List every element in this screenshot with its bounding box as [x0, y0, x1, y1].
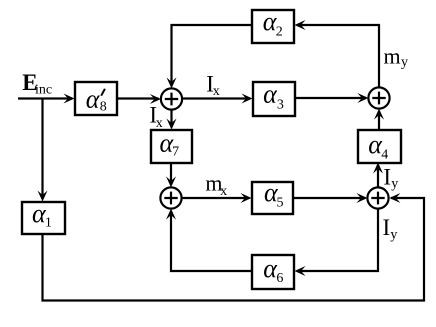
wire S1 to alpha7 (Ix)	[170, 110, 172, 127]
box alpha6	[252, 255, 294, 289]
svg-text:α: α	[263, 80, 278, 109]
svg-text:1: 1	[45, 216, 52, 231]
svg-text:7: 7	[172, 145, 179, 160]
summing junction S1	[161, 88, 182, 109]
svg-text:y: y	[401, 55, 408, 70]
summing junction S2	[368, 87, 389, 108]
wire S3 to alpha5 (mx)	[182, 197, 249, 199]
svg-text:5: 5	[277, 196, 284, 211]
arrowhead into S3 bottom	[166, 209, 176, 220]
box alpha7	[151, 130, 192, 163]
svg-text:m: m	[384, 44, 401, 69]
wire alpha5 to S4	[293, 197, 365, 199]
wire alpha2 to S1 top	[172, 25, 253, 86]
arrowhead into alpha1 top	[38, 191, 48, 202]
arrowhead into alpha5	[241, 193, 252, 203]
svg-text:x: x	[220, 184, 227, 199]
wire branch down to alpha1	[41, 99, 43, 200]
wire alpha8 to S1	[117, 97, 159, 99]
wire S1 to alpha3 (Ix)	[182, 97, 250, 99]
wire S4 up to alpha4 (Iy)	[377, 165, 379, 187]
svg-text:8: 8	[100, 100, 107, 115]
box alpha2	[252, 10, 294, 43]
wire alpha4 to S2	[378, 111, 380, 130]
arrowhead into S3 top	[166, 176, 176, 187]
svg-text:x: x	[213, 84, 220, 99]
svg-text:3: 3	[277, 98, 284, 113]
svg-text:inc: inc	[35, 83, 52, 98]
box alpha3	[253, 82, 295, 116]
svg-text:y: y	[391, 177, 398, 192]
arrowhead into alpha6 right	[295, 266, 306, 276]
svg-text:I: I	[383, 215, 391, 240]
arrowhead into S2 left	[357, 93, 368, 103]
summing junction S4	[367, 187, 388, 208]
wire S2 up to alpha2 (my)	[297, 25, 379, 87]
arrowhead into alpha2 right	[295, 20, 306, 30]
wire alpha6 to S3	[171, 211, 252, 271]
arrowhead into S4 left	[356, 193, 367, 203]
wire Einc input	[18, 97, 72, 99]
svg-text:I: I	[383, 164, 391, 189]
arrowhead into alpha3	[242, 94, 253, 104]
svg-text:2: 2	[276, 25, 283, 40]
wire alpha7 to S3	[170, 163, 172, 185]
wire alpha3 to S2	[295, 97, 366, 99]
wire S4 down to alpha6 (Iy)	[297, 209, 378, 271]
wire alpha1 bottom loop to S4 right	[43, 198, 425, 301]
arrowhead into S1 left	[150, 94, 161, 104]
svg-text:4: 4	[381, 148, 388, 163]
svg-text:6: 6	[276, 271, 283, 286]
arrowhead into S4 right	[389, 193, 400, 203]
box alpha8'	[75, 82, 117, 115]
arrowhead into alpha8	[64, 94, 75, 104]
box alpha4	[358, 130, 401, 163]
arrowhead into S1 top	[167, 77, 177, 88]
box alpha1	[22, 202, 65, 234]
summing junction S3	[160, 187, 181, 208]
arrowhead into alpha4 bottom	[373, 163, 383, 174]
arrowhead into alpha7 top	[167, 119, 177, 130]
svg-text:y: y	[390, 228, 397, 243]
box alpha5	[252, 182, 293, 214]
svg-text:α: α	[86, 84, 101, 113]
arrowhead into S2 bottom	[374, 109, 384, 120]
